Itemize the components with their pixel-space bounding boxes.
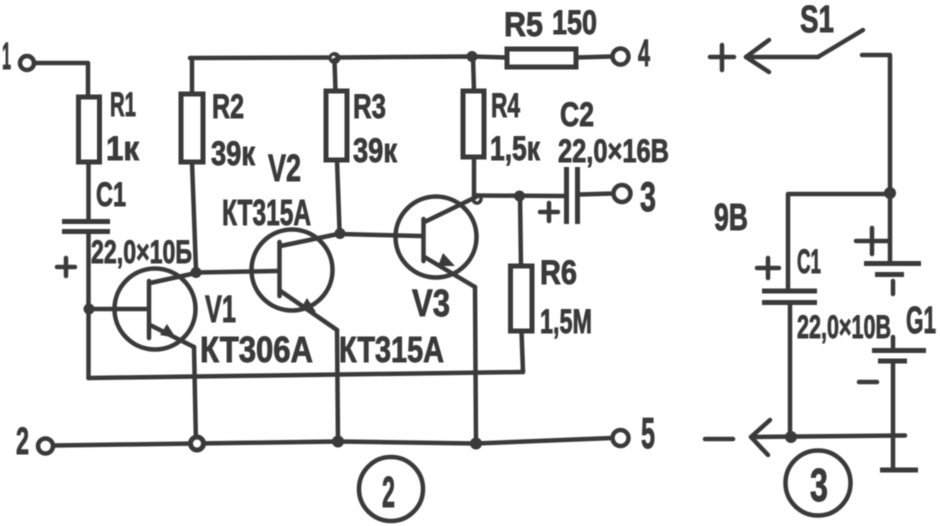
svg-text:R3: R3 bbox=[353, 88, 386, 126]
emitter rail wire bbox=[89, 372, 524, 378]
minus output arrow bbox=[705, 420, 770, 455]
svg-text:G1: G1 bbox=[906, 300, 936, 342]
bottom common rail wire bbox=[53, 438, 612, 446]
wire node E to R4 bbox=[473, 57, 474, 91]
svg-text:КТ315А: КТ315А bbox=[222, 192, 311, 233]
svg-text:5: 5 bbox=[641, 409, 655, 458]
node D junction dot bbox=[335, 228, 346, 239]
node G junction dot bbox=[884, 187, 896, 199]
svg-text:V1: V1 bbox=[205, 289, 236, 331]
svg-text:39к: 39к bbox=[211, 135, 256, 173]
node H junction dot bbox=[785, 431, 797, 443]
figure label circle 2 bbox=[359, 457, 423, 521]
resistor R5 bbox=[504, 4, 597, 67]
node 2 terminal bbox=[16, 421, 53, 463]
wire V2 emitter down to bottom rail bbox=[337, 330, 338, 442]
wire from terminal 1 to R1 bbox=[34, 63, 88, 97]
resistor R6 bbox=[511, 254, 593, 341]
wire R5 to terminal 4 bbox=[576, 57, 612, 58]
svg-text:22,0×16В: 22,0×16В bbox=[558, 133, 669, 169]
wire switch to battery top bbox=[862, 55, 890, 193]
node A junction dot bbox=[84, 304, 95, 315]
svg-text:2: 2 bbox=[16, 421, 29, 463]
wire C1 to emitter rail bbox=[86, 234, 91, 378]
svg-text:2: 2 bbox=[382, 468, 395, 517]
svg-text:1: 1 bbox=[2, 36, 11, 78]
svg-text:39к: 39к bbox=[353, 132, 398, 170]
capacitor C2 bbox=[540, 96, 669, 224]
wire node F to R6 bbox=[520, 196, 521, 266]
wire R1 to C1 bbox=[86, 162, 91, 219]
V3 collector junction loop bbox=[473, 195, 481, 203]
svg-text:3: 3 bbox=[640, 173, 656, 220]
node 1 terminal bbox=[2, 36, 34, 78]
wire V3 emitter down to bottom rail bbox=[475, 287, 476, 445]
wire C1 bottom to minus rail bbox=[788, 304, 793, 437]
svg-text:R1: R1 bbox=[110, 86, 136, 124]
top supply rail wire bbox=[190, 57, 507, 59]
battery G1 bbox=[856, 193, 936, 470]
svg-text:4: 4 bbox=[638, 33, 650, 75]
svg-text:V3: V3 bbox=[412, 283, 450, 325]
wire node C to R3 bbox=[335, 60, 336, 91]
transistor V3 bbox=[339, 197, 477, 371]
junction dot V3 emitter at rail bbox=[470, 438, 482, 450]
node E junction (R4 top) bbox=[467, 51, 478, 62]
svg-text:КТ315А: КТ315А bbox=[339, 329, 444, 370]
figure label circle 3 bbox=[786, 451, 851, 516]
svg-text:22,0×10В: 22,0×10В bbox=[797, 309, 891, 345]
svg-text:3: 3 bbox=[810, 459, 828, 511]
resistor R4 bbox=[463, 87, 541, 168]
svg-text:КТ306А: КТ306А bbox=[200, 329, 313, 370]
wire node B to V2 base bbox=[196, 271, 277, 273]
junction dot V2 emitter at rail bbox=[332, 436, 344, 448]
switch S1 bbox=[746, 0, 863, 57]
svg-text:C2: C2 bbox=[560, 96, 594, 134]
node C junction (R3 top) bbox=[329, 52, 341, 64]
svg-text:R5: R5 bbox=[504, 6, 543, 44]
wire R2 bottom to node B bbox=[192, 162, 196, 270]
svg-text:V2: V2 bbox=[268, 148, 301, 190]
resistor R1 bbox=[79, 86, 140, 168]
transistor V1 bbox=[115, 269, 314, 371]
svg-text:R6: R6 bbox=[540, 254, 577, 292]
svg-text:1к: 1к bbox=[106, 130, 140, 168]
wire R6 bottom to emitter rail bbox=[522, 331, 524, 372]
capacitor C1 (battery unit) bbox=[757, 243, 891, 345]
svg-text:150: 150 bbox=[552, 4, 597, 42]
node 4 terminal bbox=[613, 33, 651, 75]
node F junction dot (R6 top) bbox=[514, 191, 525, 202]
minus rail wire bbox=[751, 436, 905, 438]
svg-text:S1: S1 bbox=[800, 0, 834, 41]
resistor R3 bbox=[326, 88, 398, 170]
wire C2 to terminal 3 bbox=[579, 194, 613, 195]
node 5 terminal bbox=[613, 409, 656, 458]
wire R4 bottom to output node bbox=[472, 157, 477, 195]
wire R2 top to rail bbox=[190, 58, 195, 94]
svg-text:R2: R2 bbox=[212, 88, 244, 126]
svg-text:R4: R4 bbox=[491, 87, 520, 125]
svg-text:1,5к: 1,5к bbox=[490, 130, 541, 168]
plus output arrow bbox=[710, 40, 769, 72]
svg-text:9В: 9В bbox=[714, 197, 748, 239]
resistor R2 bbox=[181, 88, 256, 173]
svg-text:22,0×10Б: 22,0×10Б bbox=[91, 234, 192, 270]
node 3 terminal bbox=[614, 173, 657, 220]
svg-text:C1: C1 bbox=[96, 176, 126, 214]
capacitor C1 bbox=[57, 176, 192, 276]
node B junction dot bbox=[191, 267, 202, 278]
wire node G to C1 top bbox=[788, 194, 890, 288]
transistor V2 bbox=[222, 148, 338, 330]
svg-text:1,5М: 1,5М bbox=[540, 303, 592, 341]
wire V1 emitter down to bottom rail bbox=[194, 347, 196, 444]
junction ring V1 emitter at rail bbox=[191, 437, 204, 450]
output node rail wire bbox=[474, 193, 564, 198]
svg-text:C1: C1 bbox=[797, 243, 821, 281]
wire node A to V1 base bbox=[89, 307, 146, 312]
wire R3 bottom to node D bbox=[337, 160, 340, 230]
wire node D to V3 base bbox=[340, 234, 421, 236]
